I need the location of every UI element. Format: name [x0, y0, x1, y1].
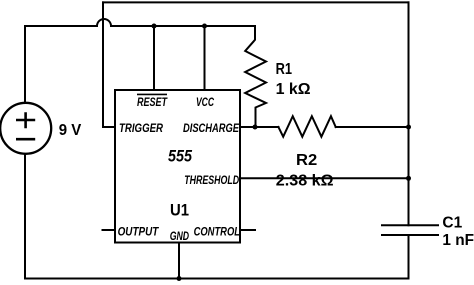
junction dot R2 right node: [406, 125, 411, 130]
wire VCC pin vertical: [204, 26, 206, 90]
svg-text:C1: C1: [442, 214, 462, 231]
junction dot THRESHOLD node: [406, 176, 411, 181]
svg-text:U1: U1: [170, 201, 189, 220]
wire OUTPUT stub: [103, 229, 116, 231]
wire GND pin vertical: [178, 243, 180, 279]
resistor R2: [278, 116, 335, 137]
svg-text:R1: R1: [276, 61, 292, 78]
wire right net vertical lower (C1 bottom to ground net): [408, 235, 410, 279]
svg-text:CONTROL: CONTROL: [194, 225, 240, 239]
pin label RESET overline: [137, 93, 167, 95]
capacitor C1: [382, 225, 438, 235]
svg-text:RESET: RESET: [137, 95, 168, 109]
wire right net vertical upper: [408, 2, 410, 225]
svg-text:DISCHARGE: DISCHARGE: [183, 121, 240, 135]
svg-text:GND: GND: [170, 229, 189, 243]
svg-text:TRIGGER: TRIGGER: [119, 121, 163, 135]
junction dot VCC pin net: [202, 24, 207, 29]
wire VCC net horizontal with hop over trigger wire: [25, 19, 255, 26]
svg-text:555: 555: [168, 147, 192, 166]
svg-text:9 V: 9 V: [59, 122, 82, 139]
voltage source V1 circle: [0, 103, 51, 154]
svg-text:1 kΩ: 1 kΩ: [276, 81, 311, 98]
wire TRIGGER vertical drop to pin: [103, 2, 115, 127]
wire R2 right to right net: [336, 126, 409, 128]
wire DISCHARGE node to R2: [255, 126, 278, 128]
IC U1 555 timer body: [115, 90, 240, 243]
wire from VCC net down to source top: [24, 26, 26, 102]
voltage source plus sign: [16, 112, 35, 139]
svg-text:OUTPUT: OUTPUT: [118, 225, 160, 239]
junction dot DISCHARGE node: [253, 125, 258, 130]
svg-text:2.38 kΩ: 2.38 kΩ: [276, 172, 334, 189]
svg-text:R2: R2: [296, 152, 317, 169]
wire DISCHARGE stub: [240, 126, 255, 128]
wire RESET pin vertical: [153, 26, 155, 90]
voltage source minus sign: [16, 138, 35, 141]
svg-text:VCC: VCC: [196, 95, 215, 109]
svg-text:THRESHOLD: THRESHOLD: [184, 173, 239, 187]
junction dot RESET/VCC net: [152, 24, 157, 29]
wire CONTROL stub: [240, 229, 255, 231]
resistor R1: [245, 26, 266, 127]
junction dot GND node: [177, 276, 182, 281]
wire THRESHOLD horizontal to right net: [240, 177, 409, 179]
svg-text:1 nF: 1 nF: [442, 232, 474, 249]
wire top TRIGGER net horizontal: [103, 1, 409, 3]
wire source bottom to bottom net: [24, 154, 26, 279]
wire bottom ground net horizontal: [25, 278, 409, 280]
